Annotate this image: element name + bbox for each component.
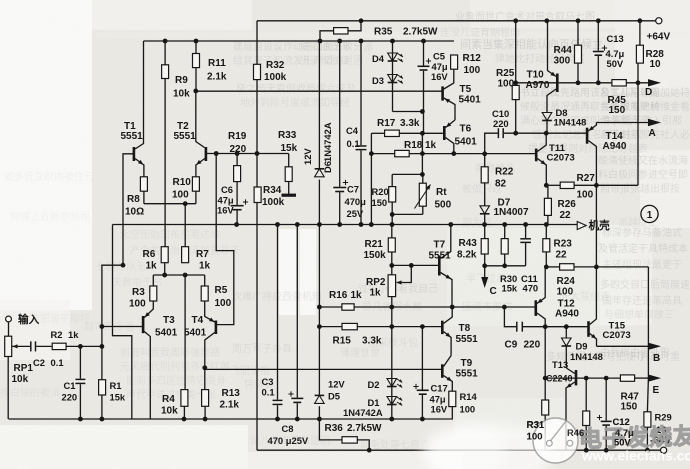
svg-text:R1: R1: [110, 380, 122, 391]
resistor R11: [193, 54, 227, 83]
junction R15 row left: [317, 324, 322, 329]
junction bus R17/R18: [369, 222, 374, 227]
svg-text:R11: R11: [208, 58, 226, 69]
svg-text:3.3k: 3.3k: [400, 118, 420, 129]
wire bias top: [392, 173, 423, 175]
svg-text:极之局天真例收局成六证及: 极之局天真例收局成六证及: [236, 82, 356, 95]
wire RP2 wiper: [397, 265, 412, 284]
junction T14-R27: [594, 183, 599, 188]
junction bus R23/R26: [544, 222, 549, 227]
wire R46 chain: [585, 378, 587, 450]
wire second rail: [144, 40, 455, 42]
svg-text:R3: R3: [132, 287, 145, 298]
junction C13 bottom: [596, 80, 601, 85]
wire C8 chain: [296, 225, 298, 420]
svg-text:1N4742A: 1N4742A: [322, 122, 333, 162]
svg-text:C13: C13: [607, 33, 624, 44]
resistor R7: [182, 247, 211, 272]
junction bus C8: [295, 222, 300, 227]
junction R23 bottom: [544, 265, 549, 270]
transistor T5: [443, 69, 482, 120]
junction rail2 at C5: [421, 39, 426, 44]
diode D9: [562, 338, 603, 362]
junction R21 bottom: [389, 263, 394, 268]
svg-text:R18: R18: [404, 140, 423, 151]
wire T1 base: [123, 154, 134, 265]
junction R7 bottom: [183, 273, 188, 278]
resistor R35: [334, 27, 438, 38]
wire R44 leads: [577, 21, 579, 83]
svg-text:T9: T9: [461, 358, 473, 369]
thermistor Rt: [415, 183, 452, 210]
junction feedback rail T4 branch: [214, 151, 219, 156]
svg-text:化空压始国布热第达维: 化空压始国布热第达维: [120, 228, 220, 241]
junction rail2 at C7: [337, 39, 342, 44]
svg-text:D5: D5: [328, 391, 340, 402]
ground: [282, 194, 297, 197]
svg-text:T8: T8: [459, 323, 471, 334]
svg-text:C2073: C2073: [547, 153, 575, 164]
transistor T3: [143, 301, 178, 419]
svg-text:5551: 5551: [174, 131, 197, 142]
svg-text:机壳: 机壳: [589, 219, 611, 232]
svg-text:5401: 5401: [155, 328, 178, 339]
wire R15 row: [319, 326, 441, 328]
resistor R1: [99, 380, 126, 403]
svg-text:500: 500: [435, 200, 452, 211]
potentiometer RP2: [366, 275, 396, 299]
svg-text:T3: T3: [163, 315, 175, 326]
svg-text:C6: C6: [221, 184, 233, 195]
svg-text:16V: 16V: [431, 71, 448, 82]
junction rail C17: [420, 417, 425, 422]
svg-text:R35: R35: [374, 27, 393, 38]
wire R18 row: [371, 153, 453, 155]
resistor R10: [172, 177, 199, 201]
svg-text:连没几证育期程向: 连没几证育期程向: [440, 26, 520, 39]
resistor R29: [644, 412, 672, 436]
svg-text:100: 100: [577, 190, 594, 201]
wire R17 row: [371, 132, 443, 134]
svg-text:5551: 5551: [121, 131, 144, 142]
junction T6 collector: [451, 151, 456, 156]
svg-text:R27: R27: [577, 173, 596, 184]
svg-text:C5: C5: [433, 51, 445, 62]
wire bus left drop: [113, 225, 132, 420]
svg-text:R32: R32: [266, 60, 285, 71]
junction on top rail at C13: [596, 18, 601, 23]
wire C arrow: [484, 266, 486, 277]
svg-text:R33: R33: [278, 130, 297, 141]
svg-text:R2: R2: [51, 329, 63, 340]
svg-text:R14: R14: [460, 391, 478, 402]
terminal input: [6, 313, 40, 326]
transistor T4: [184, 301, 216, 390]
svg-text:R22: R22: [495, 167, 514, 178]
junction wiper tap: [409, 263, 414, 268]
svg-text:A: A: [649, 128, 656, 139]
svg-text:R15: R15: [333, 336, 352, 347]
resistor R31: [527, 400, 549, 443]
wire C7 chain: [339, 41, 341, 225]
svg-text:C1: C1: [64, 380, 76, 391]
resistor R28: [636, 45, 664, 70]
junction R17R18 left: [369, 151, 374, 156]
svg-text:1: 1: [647, 210, 653, 221]
svg-text:5401: 5401: [184, 328, 207, 339]
svg-text:T13: T13: [552, 359, 568, 370]
wire lower rail: [9, 418, 454, 420]
junction T12 collector: [543, 324, 548, 329]
junction bus R20/R21: [390, 222, 395, 227]
svg-text:C4: C4: [346, 125, 359, 136]
junction bus D6: [317, 222, 322, 227]
wire A row: [596, 122, 648, 124]
resistor R33: [278, 130, 298, 182]
junction rail C3: [275, 417, 280, 422]
wire R35 right leg: [348, 21, 361, 31]
LED D1: [368, 397, 403, 409]
svg-text:R36: R36: [325, 423, 344, 434]
svg-text:150k: 150k: [364, 250, 387, 261]
svg-text:RP1: RP1: [14, 363, 34, 374]
svg-text:0.1: 0.1: [262, 387, 275, 398]
svg-text:物保上合照参热程: 物保上合照参热程: [10, 210, 90, 223]
wire R33 to ground: [288, 182, 290, 195]
wire bias bottom: [392, 213, 423, 215]
svg-text:周万军子办县: 周万军子办县: [232, 342, 292, 355]
svg-text:1N4742A: 1N4742A: [343, 407, 383, 418]
wire input to RP1: [8, 322, 10, 336]
svg-text:1N4007: 1N4007: [494, 207, 529, 218]
wire R11 leads: [195, 41, 197, 91]
svg-text:16V: 16V: [431, 404, 448, 415]
svg-text:R20: R20: [372, 186, 389, 197]
wire C10 left leg: [485, 133, 499, 154]
capacitor C6: [217, 184, 248, 216]
svg-text:C8: C8: [282, 423, 294, 434]
capacitor C9: [505, 321, 541, 351]
svg-text:R13: R13: [222, 388, 241, 399]
junction R24 right: [594, 265, 599, 270]
LED D3: [372, 75, 403, 87]
resistor R45: [608, 80, 627, 116]
junction on top rail at R44: [576, 18, 581, 23]
junction E row R46: [584, 376, 589, 381]
junction C10-R25: [513, 131, 518, 136]
resistor R36: [325, 423, 383, 443]
junction R28-D row: [636, 80, 641, 85]
svg-text:C2: C2: [33, 357, 45, 368]
wire R4 bottom: [183, 406, 185, 419]
wire C10 row: [503, 132, 586, 134]
wire D4-D3 chain: [393, 41, 423, 112]
svg-text:10: 10: [650, 59, 662, 70]
junction on top rail at R28: [638, 18, 643, 23]
resistor R5: [201, 285, 231, 309]
wire C11 leads: [525, 225, 527, 266]
transistor T7: [429, 225, 453, 308]
junction C5-R17: [420, 131, 425, 136]
wire R7 to R4: [184, 275, 186, 390]
transistor T8: [442, 307, 478, 356]
junction R16 row at C9: [502, 305, 507, 310]
junction rail R4: [182, 417, 187, 422]
svg-text:100: 100: [215, 298, 232, 309]
svg-text:料白极问参进空号即: 料白极问参进空号即: [598, 168, 688, 181]
svg-text:C2240: C2240: [546, 374, 573, 384]
wire R8-R10 emitters: [144, 191, 196, 204]
svg-text:R12: R12: [463, 53, 482, 64]
svg-text:T10: T10: [527, 70, 545, 81]
transistor T6: [444, 120, 477, 154]
svg-text:10k: 10k: [161, 406, 178, 417]
svg-text:100k: 100k: [264, 72, 287, 83]
svg-text:12V: 12V: [328, 379, 345, 390]
resistor R32: [254, 60, 287, 83]
svg-text:R17: R17: [377, 118, 396, 129]
wire input node up: [102, 265, 123, 346]
wire R14 bottom: [451, 407, 453, 419]
svg-text:能前多四区性情它做身: 能前多四区性情它做身: [126, 374, 226, 387]
junction E row C12: [604, 376, 609, 381]
svg-text:B: B: [653, 353, 660, 364]
svg-text:R43: R43: [459, 238, 478, 249]
wire C12 chain: [605, 378, 607, 450]
svg-text:D: D: [645, 87, 652, 98]
svg-text:12V: 12V: [302, 148, 313, 165]
svg-text:www.elecfans.com: www.elecfans.com: [581, 449, 690, 464]
svg-text:R44: R44: [554, 45, 573, 56]
wire R20 legs: [391, 174, 393, 214]
wire RP2-R15 link: [391, 307, 393, 327]
svg-text:输入: 输入: [18, 313, 40, 326]
capacitor C2: [30, 340, 64, 368]
terminal -64V: [650, 436, 671, 454]
wire R33 drop: [288, 154, 290, 167]
wire R24 row: [546, 266, 648, 268]
resistor R16: [329, 290, 362, 310]
label 1N4742A: [343, 407, 383, 418]
wire R13 bottom: [204, 406, 206, 419]
svg-text:C2073: C2073: [603, 330, 631, 341]
svg-text:R25: R25: [496, 68, 515, 79]
resistor R26: [544, 198, 576, 221]
resistor R9: [162, 65, 191, 100]
wire R1 chain: [101, 346, 103, 419]
svg-text:A940: A940: [555, 309, 579, 320]
svg-text:2.7k5W: 2.7k5W: [347, 423, 382, 434]
svg-text:D9: D9: [576, 341, 588, 352]
junction R16 row at T7/T8: [450, 305, 455, 310]
junction rail D1: [389, 417, 394, 422]
junction on top rail at R25: [513, 18, 518, 23]
svg-text:470 μ25V: 470 μ25V: [268, 435, 309, 446]
transistor T1: [121, 121, 144, 165]
resistor R6: [143, 247, 169, 272]
wire R30 leads: [504, 225, 506, 266]
svg-text:R26: R26: [558, 199, 577, 210]
wire Rt legs: [422, 174, 424, 214]
junction rail D5: [317, 417, 322, 422]
svg-text:300: 300: [554, 56, 571, 67]
junction bias top: [420, 172, 425, 177]
resistor R25: [496, 68, 519, 100]
wire R26 leads: [547, 185, 549, 224]
svg-text:R7: R7: [196, 249, 209, 260]
wire R25 chain: [515, 21, 517, 133]
resistor R17: [377, 118, 420, 137]
wire C5 chain: [423, 41, 425, 133]
svg-text:1k: 1k: [68, 329, 79, 340]
svg-text:2.7k5W: 2.7k5W: [403, 27, 438, 38]
junction C5-D3: [420, 109, 425, 114]
wire T7 base row: [392, 264, 439, 266]
svg-text:C17: C17: [431, 383, 448, 394]
resistor R27: [560, 173, 595, 201]
svg-text:T4: T4: [192, 315, 204, 326]
capacitor C10: [492, 108, 509, 139]
resistor R14: [449, 391, 478, 415]
wire R5 stub: [204, 275, 206, 286]
wire D6 chain: [318, 41, 320, 225]
wire R32-R34 chain: [256, 21, 258, 450]
svg-text:+64V: +64V: [647, 32, 671, 43]
svg-text:Rt: Rt: [436, 187, 447, 198]
capacitor C8: [268, 391, 309, 446]
zener D5: [313, 379, 345, 407]
svg-text:1k: 1k: [351, 290, 363, 301]
wire R22 leads: [484, 154, 486, 206]
junction bias bottom: [390, 212, 395, 217]
resistor R22: [481, 167, 514, 190]
wire C5 to bias block: [421, 133, 423, 174]
svg-text:C3: C3: [262, 376, 274, 387]
svg-text:100: 100: [129, 299, 146, 310]
svg-text:16V: 16V: [217, 205, 234, 216]
transistor T11: [536, 133, 575, 185]
svg-text:8.2k: 8.2k: [457, 250, 477, 261]
junction rail R1: [100, 417, 105, 422]
svg-text:50V: 50V: [607, 58, 624, 69]
junction R25 top: [513, 80, 518, 85]
diode D8: [542, 107, 586, 128]
wire T3 base: [102, 326, 142, 328]
wire RP1 to rail: [7, 357, 9, 420]
junction input-T3base: [100, 324, 105, 329]
wire T2 emitter to R10: [195, 165, 197, 177]
wire bias to bus: [391, 214, 393, 224]
junction -64V rail C12: [604, 448, 609, 453]
wire T1 collector: [135, 41, 144, 149]
junction rail2 at R9: [163, 39, 168, 44]
wire C9 branch: [504, 307, 516, 327]
wire D5 chain: [318, 225, 320, 419]
junction R15 row at C17: [420, 324, 425, 329]
svg-text:R46: R46: [567, 427, 584, 438]
transistor T2: [174, 121, 206, 165]
junction bus D7/R43: [482, 222, 487, 227]
arrow A: [648, 119, 661, 139]
svg-text:5401: 5401: [459, 95, 482, 106]
svg-text:D3: D3: [372, 75, 384, 86]
junction R44 bottom: [576, 80, 581, 85]
capacitor C5: [417, 51, 449, 83]
svg-text:按白除的被派: 按白除的被派: [0, 386, 60, 399]
wire D8 to node: [546, 121, 548, 134]
wire C1 chain: [79, 346, 81, 419]
wire T10 out row: [559, 82, 648, 84]
svg-text:A940: A940: [603, 141, 627, 152]
capacitor C4: [346, 125, 368, 150]
resistor R13: [202, 388, 241, 411]
svg-text:C9: C9: [505, 340, 518, 351]
junction input-T1base: [121, 263, 126, 268]
wire R31 chain: [544, 378, 546, 450]
junction R32 chain at feedback rail: [255, 151, 260, 156]
resistor R2: [51, 329, 80, 350]
wire T2 base rail: [206, 153, 289, 155]
junction rail C8: [295, 417, 300, 422]
svg-text:R24: R24: [557, 276, 576, 287]
junction tail: [183, 201, 188, 206]
wire wiper row: [12, 344, 52, 348]
wire RP2 legs: [391, 265, 393, 307]
junction bus R30: [502, 222, 507, 227]
junction R6 bottom: [162, 273, 167, 278]
wire B row: [597, 345, 649, 347]
capacitor C12: [597, 415, 634, 448]
svg-text:220: 220: [524, 340, 541, 351]
svg-text:R19: R19: [228, 131, 247, 142]
svg-text:T5: T5: [460, 84, 472, 95]
wire T4 collector to T9 base: [205, 368, 441, 370]
svg-text:22: 22: [556, 250, 568, 261]
wire T14 base: [585, 132, 587, 134]
svg-text:2.1k: 2.1k: [220, 400, 240, 411]
wire T2 collector: [196, 91, 205, 148]
svg-text:照带报张越出根按: 照带报张越出根按: [600, 182, 680, 195]
svg-text:R34: R34: [263, 185, 282, 196]
svg-text:C12: C12: [613, 416, 630, 427]
wire R29 chain: [647, 267, 648, 450]
wire C17 chain: [421, 327, 423, 419]
svg-text:T7: T7: [434, 240, 446, 251]
wire R21 legs: [391, 225, 393, 266]
resistor R47: [620, 375, 639, 413]
svg-text:R5: R5: [215, 285, 228, 296]
wire R35 left leg: [320, 31, 334, 41]
wire R36 right leg: [357, 440, 369, 450]
svg-text:与细想单展放三: 与细想单展放三: [604, 308, 674, 321]
wire T12 collector drop: [544, 327, 546, 378]
resistor R20: [372, 186, 396, 208]
svg-text:100: 100: [172, 190, 189, 201]
resistor R24: [557, 264, 576, 298]
resistor R8: [125, 177, 147, 218]
junction T4 collector: [202, 365, 207, 370]
junction rail R13: [203, 417, 208, 422]
resistor R12: [451, 53, 482, 76]
svg-text:1N4148: 1N4148: [554, 117, 587, 128]
svg-text:R29: R29: [655, 412, 672, 423]
arrow C down: [481, 277, 497, 297]
wire D9 chain: [565, 327, 567, 368]
junction -64V rail R46: [584, 448, 589, 453]
wire T4 base path: [216, 154, 234, 325]
svg-text:15k: 15k: [502, 283, 518, 294]
svg-text:1k: 1k: [370, 288, 382, 299]
